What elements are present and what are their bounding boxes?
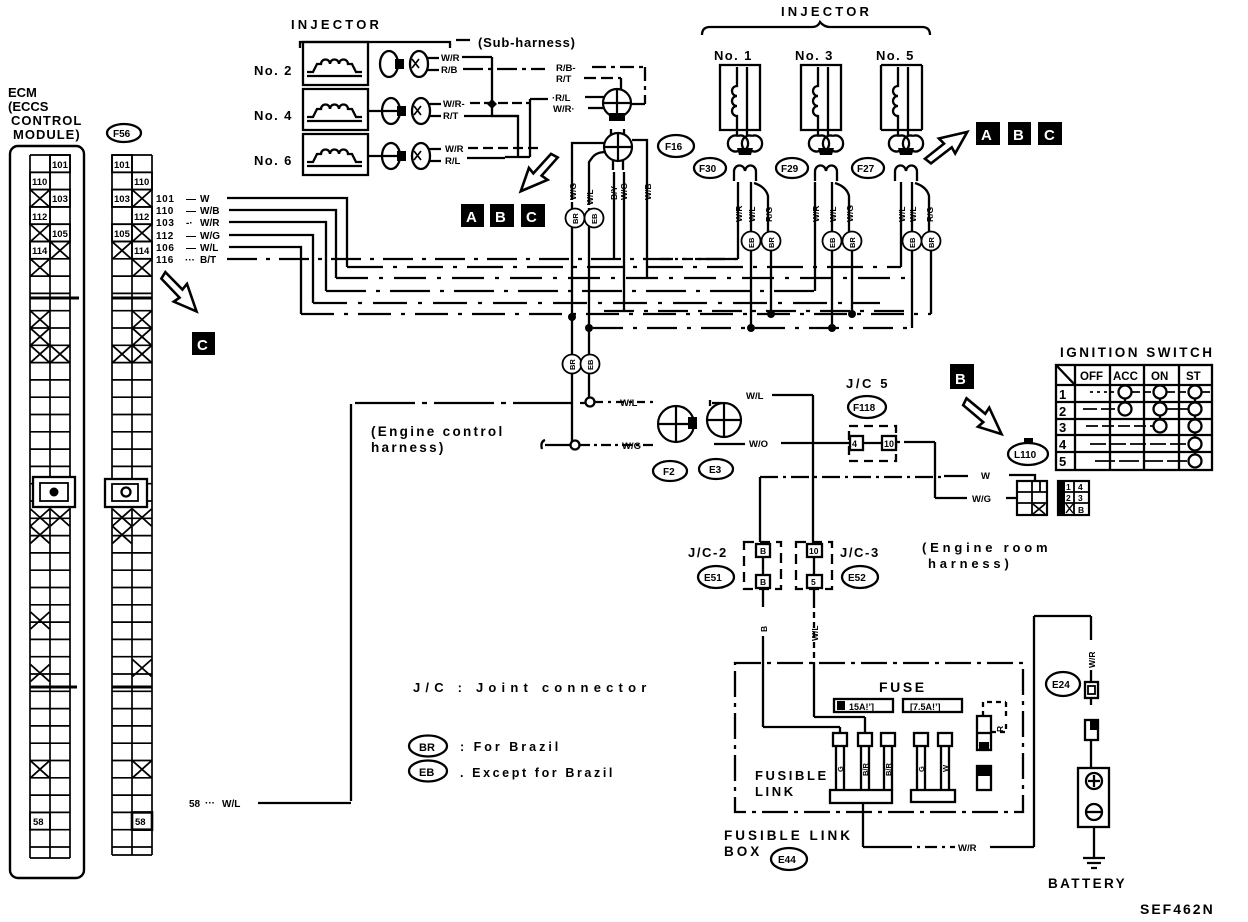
harness dash line horizontal W/L (355, 402, 586, 404)
wire from J/C5 to W grid (896, 442, 1017, 498)
wire W/R from bus bar to battery (863, 803, 900, 847)
row numbers (1059, 387, 1067, 469)
No.1 BR EB circles (742, 232, 761, 251)
wires out of circle 2 (572, 140, 647, 278)
svg-text:-·: -· (186, 218, 193, 229)
fusible link 3 (881, 733, 895, 790)
svg-text:E3: E3 (709, 465, 722, 476)
harness dash line vertical (350, 404, 352, 801)
svg-text:G: G (917, 766, 926, 772)
svg-text:SEF462N: SEF462N (1140, 901, 1215, 917)
wire 58 W/L bottom (258, 802, 351, 804)
svg-text:W/R-: W/R- (443, 99, 465, 110)
svg-text:BOX: BOX (724, 844, 762, 859)
svg-text:116: 116 (156, 255, 174, 266)
injector No.2 (254, 42, 368, 85)
svg-text:110: 110 (134, 177, 149, 188)
svg-text:E24: E24 (1052, 680, 1070, 691)
ECM connector strip 1 outer case (10, 146, 84, 878)
svg-text:W: W (981, 471, 990, 482)
black boxes A B C (mid) (461, 204, 545, 227)
black box B (950, 364, 974, 389)
bracket under left injector label (300, 40, 470, 48)
svg-text:W/L: W/L (828, 206, 838, 222)
svg-text:4: 4 (1078, 482, 1083, 492)
svg-text:No. 3: No. 3 (795, 48, 834, 63)
svg-text:101: 101 (156, 194, 175, 205)
svg-text:BATTERY: BATTERY (1048, 876, 1127, 891)
oval F118 (848, 396, 886, 418)
svg-text:B: B (760, 546, 766, 556)
svg-text:J/C 5: J/C 5 (846, 376, 890, 391)
svg-text:[7.5A!’]: [7.5A!’] (910, 702, 941, 712)
svg-text:112: 112 (134, 212, 149, 223)
svg-text:F118: F118 (853, 403, 876, 414)
No.3 wire labels (811, 205, 855, 222)
svg-text:R/B-: R/B- (556, 63, 576, 74)
svg-text:W/O: W/O (749, 439, 768, 450)
svg-text:W/L: W/L (897, 206, 907, 222)
fusible link 1 (833, 733, 847, 790)
svg-text:103: 103 (156, 218, 175, 229)
svg-text:E51: E51 (704, 573, 722, 584)
brace over injectors (702, 22, 930, 35)
connector F29 oval (776, 158, 808, 178)
svg-text:101: 101 (52, 160, 69, 171)
svg-text:J/C-2: J/C-2 (688, 545, 728, 560)
connector F27 oval (852, 158, 884, 178)
wire W (944, 475, 1035, 481)
wire W/O to J/C 5 (714, 443, 850, 444)
svg-text:B: B (495, 209, 506, 226)
svg-text:R/G: R/G (925, 207, 935, 223)
svg-text:W/L: W/L (200, 243, 218, 254)
svg-text:W/R: W/R (200, 218, 220, 229)
wire W/R to connector (588, 107, 604, 109)
svg-text:2: 2 (1066, 493, 1071, 503)
svg-text:103: 103 (52, 194, 68, 205)
No.3 connector bulbs (809, 136, 843, 182)
oval F2 (653, 461, 687, 481)
oval L110 (1008, 438, 1048, 465)
legend EB oval (409, 761, 447, 782)
fusible link 4 (914, 733, 928, 790)
wire W/L to E3 (595, 401, 654, 403)
oval E24 (1046, 672, 1080, 696)
battery connector 1 (1085, 670, 1098, 705)
No.5 BR EB circles (903, 232, 922, 251)
svg-text:—: — (186, 206, 196, 217)
injector No.4 connector pair (368, 98, 441, 124)
wire 106/W-L step (229, 247, 301, 314)
connector F16 oval (658, 135, 694, 157)
svg-text:114: 114 (32, 246, 48, 257)
bus W (347, 266, 901, 268)
svg-text:B: B (1078, 505, 1084, 515)
sub-harness connector circle 2 (604, 129, 632, 161)
svg-text:W/L: W/L (908, 206, 918, 222)
svg-text:5: 5 (1059, 454, 1066, 469)
fuse 7.5A (903, 699, 962, 712)
No.4 wire labels W/R R/T (443, 99, 465, 122)
svg-text:4: 4 (1059, 437, 1067, 452)
BR EB circles (sub-harness) (566, 209, 604, 228)
svg-text:W/R·: W/R· (553, 104, 575, 115)
oval E52 (842, 566, 878, 588)
svg-text:106: 106 (156, 243, 175, 254)
svg-text:FUSIBLE LINK: FUSIBLE LINK (724, 828, 853, 843)
wire R/T (584, 78, 621, 90)
label 58 W/L (189, 798, 240, 810)
No.1 wires to bus with dots (751, 251, 771, 328)
svg-text:R/T: R/T (443, 111, 459, 122)
svg-text:W/L: W/L (746, 391, 764, 402)
fusible link 2 (858, 733, 872, 790)
injector No.6 connector pair (368, 143, 441, 169)
svg-text:R/T: R/T (556, 74, 572, 85)
wire W/L from E3 to J/C-3 drop (772, 395, 813, 542)
battery symbol (1078, 768, 1109, 858)
svg-text:E52: E52 (848, 573, 866, 584)
svg-text:G: G (836, 766, 845, 772)
svg-text:EB: EB (908, 237, 917, 248)
bus W/B (336, 277, 905, 279)
svg-text:105: 105 (52, 229, 69, 240)
ignition harness connector grid 2 (1058, 481, 1089, 515)
svg-text:W/R: W/R (445, 144, 464, 155)
BR EB circles (mid) (563, 355, 582, 374)
injector No.2 connector pair (380, 51, 439, 77)
svg-text:F56: F56 (113, 129, 131, 140)
svg-text:110: 110 (32, 177, 47, 188)
svg-text:W: W (200, 194, 210, 205)
svg-text:B/T: B/T (200, 255, 216, 266)
bus W/R (326, 290, 815, 292)
injector No.1 (714, 48, 760, 135)
J/C-3 joint connector box (796, 542, 832, 589)
svg-text:R/L: R/L (445, 156, 461, 167)
ground symbol (1083, 858, 1105, 868)
svg-text:BR: BR (848, 237, 857, 248)
svg-text:2: 2 (1059, 404, 1066, 419)
svg-text:No. 6: No. 6 (254, 153, 293, 168)
connector F30 oval (694, 158, 726, 178)
oval E51 (698, 566, 734, 588)
pin 101 label W (156, 194, 220, 266)
fuse box boundary (735, 663, 1023, 812)
svg-text:W/G: W/G (568, 183, 578, 200)
svg-text:harness): harness) (371, 440, 446, 455)
svg-text:112: 112 (156, 231, 174, 242)
svg-text:W: W (941, 764, 950, 772)
legend BR oval (409, 736, 447, 757)
svg-text:No. 5: No. 5 (876, 48, 915, 63)
svg-text:—: — (186, 194, 196, 205)
connector F2 round (658, 406, 697, 442)
svg-text:114: 114 (134, 246, 150, 257)
svg-text:No. 1: No. 1 (714, 48, 753, 63)
bus mid (604, 310, 907, 312)
svg-text:110: 110 (156, 206, 174, 217)
No.1 connector bulbs (728, 136, 762, 182)
wire W/R No.2 down (462, 57, 548, 157)
svg-text:58: 58 (189, 799, 201, 810)
svg-text:LINK: LINK (755, 784, 796, 799)
svg-text:···: ··· (205, 798, 215, 809)
ignition harness connector grid 1 (1017, 481, 1047, 515)
wire R/L to connector (585, 96, 604, 98)
svg-text:L110: L110 (1014, 450, 1037, 461)
FUSIBLE LINK BOX label (724, 828, 853, 859)
svg-text:R/B: R/B (441, 65, 458, 76)
svg-text:W/G: W/G (845, 205, 855, 222)
svg-text:W/L: W/L (585, 189, 595, 205)
oval E3 (699, 459, 733, 479)
svg-text:F27: F27 (857, 164, 875, 175)
svg-text:B: B (1013, 127, 1024, 144)
svg-text:(Engine control: (Engine control (371, 424, 505, 439)
arrow from B to L110 (959, 391, 1008, 443)
contact circles ON (1154, 386, 1167, 433)
No.2 wire labels W/R R/B (441, 53, 460, 76)
svg-text:BR: BR (568, 359, 577, 370)
svg-text:103: 103 (114, 194, 130, 205)
bus W/G (313, 302, 880, 304)
arrow to ABC (top right) (920, 125, 974, 168)
wire W/R No.6 dash (468, 147, 540, 149)
wire 101/W step (227, 198, 347, 267)
ECM connector strip 1 grid (30, 155, 70, 858)
FUSIBLE LINK label (755, 768, 829, 799)
svg-text:105: 105 (114, 229, 131, 240)
wire R/B to connector right side (592, 67, 645, 104)
svg-text:EB: EB (828, 237, 837, 248)
strip 1 section divider (30, 297, 79, 300)
svg-text:EB: EB (747, 237, 756, 248)
wire R/T No.4 (464, 115, 518, 117)
svg-text:101: 101 (114, 160, 131, 171)
svg-text:15A!’]: 15A!’] (849, 702, 874, 712)
svg-text:: For Brazil: : For Brazil (460, 740, 561, 754)
No.1 wire labels (734, 205, 774, 222)
svg-text:3: 3 (1059, 420, 1066, 435)
svg-text:J/C-3: J/C-3 (840, 545, 880, 560)
svg-text:C: C (1044, 127, 1055, 144)
component 2 (977, 766, 991, 790)
No.3 harness wires (815, 182, 849, 291)
svg-text:F30: F30 (699, 164, 717, 175)
connector E3 round (707, 400, 741, 437)
svg-text:F16: F16 (665, 142, 683, 153)
No.1 harness wires (711, 182, 768, 259)
feed wire to link 2 (814, 663, 865, 733)
node W/L (586, 398, 595, 407)
svg-text:W/R: W/R (811, 205, 821, 222)
svg-text:1: 1 (1066, 482, 1071, 492)
J/C-2 joint connector box (744, 542, 781, 589)
ECM (ECCS CONTROL MODULE) label (8, 85, 82, 142)
svg-text:W/L: W/L (747, 206, 757, 222)
J/C-3 wire down with W/L label (813, 557, 815, 608)
svg-text:CONTROL: CONTROL (11, 113, 82, 128)
svg-text:B: B (760, 577, 766, 587)
svg-text:ACC: ACC (1113, 371, 1138, 383)
W/L vertical with junction dot (588, 354, 590, 397)
svg-text:(Sub-harness): (Sub-harness) (478, 35, 576, 50)
svg-text:112: 112 (32, 212, 47, 223)
oval E44 (771, 848, 807, 870)
ECM connector strip 2 grid (112, 155, 152, 855)
wire W to J/C-2 drop (760, 476, 944, 478)
No.3 wires to bus with dots (832, 251, 852, 328)
svg-text:C: C (526, 209, 537, 226)
black box C (left) (192, 332, 215, 355)
fuse 15A (834, 699, 893, 712)
label (Engine control harness) (371, 424, 505, 455)
svg-text:B: B (759, 626, 769, 632)
svg-text:EB: EB (586, 359, 595, 370)
label (Engine room harness) (922, 540, 1051, 571)
svg-text:1: 1 (1059, 387, 1066, 402)
W/G vertical with junction dot (572, 317, 575, 445)
svg-text:BR: BR (767, 237, 776, 248)
svg-text:3: 3 (1078, 493, 1083, 503)
svg-text:No. 2: No. 2 (254, 63, 293, 78)
svg-text:R/G: R/G (764, 207, 774, 223)
strip 1 lock box (33, 477, 75, 507)
black boxes A B C (top right) (976, 122, 1062, 145)
strip 2 section divider (112, 297, 152, 300)
wire 103/W-R step (229, 222, 326, 291)
svg-text:—: — (186, 231, 196, 242)
bus W/L (301, 313, 931, 315)
strip 1 pin numbers (30, 155, 70, 830)
svg-text:F29: F29 (781, 164, 799, 175)
svg-text:—: — (186, 243, 196, 254)
wires continue below labels (572, 172, 624, 355)
svg-text:J/C : Joint connector: J/C : Joint connector (413, 680, 652, 695)
svg-text:ST: ST (1186, 371, 1201, 383)
svg-text:B/R: B/R (861, 763, 870, 777)
J/C-2 wire down with B label (762, 557, 764, 607)
svg-text:W/R: W/R (441, 53, 460, 64)
svg-text:W/R: W/R (734, 205, 744, 222)
svg-text:harness): harness) (928, 556, 1013, 571)
svg-text:R: R (995, 726, 1005, 732)
fusible link bus bar 1 (830, 790, 892, 803)
relay component R (977, 702, 1006, 750)
svg-text:E44: E44 (778, 855, 796, 866)
svg-text:F2: F2 (663, 467, 675, 478)
svg-text:BR: BR (571, 213, 580, 224)
contact circles ACC (1119, 386, 1132, 416)
svg-text:B/R: B/R (884, 763, 893, 777)
strip 2 pin numbers (112, 155, 152, 830)
svg-text:EB: EB (419, 767, 434, 779)
svg-text:·R/L: ·R/L (552, 93, 571, 104)
No.5 wires to bus (912, 251, 931, 328)
connector F56 oval (107, 124, 141, 142)
feed wire to link 1 (763, 663, 840, 733)
strip 2 divider 2 (112, 686, 152, 689)
wire hook W/G left (541, 440, 571, 449)
wire W/G to F2 (580, 444, 656, 446)
injector No.4 (254, 89, 368, 130)
svg-text:W/R: W/R (1087, 651, 1097, 668)
svg-text:W/R: W/R (958, 843, 977, 854)
svg-text:W/L: W/L (620, 398, 638, 409)
svg-text:C: C (197, 337, 208, 354)
strip 2 X cells (113, 190, 152, 778)
svg-text:MODULE): MODULE) (13, 127, 81, 142)
svg-text:BR: BR (419, 742, 435, 754)
fusible link 5 (938, 733, 952, 790)
svg-text:W/L: W/L (222, 799, 240, 810)
svg-text:BR: BR (927, 237, 936, 248)
svg-text:5: 5 (811, 577, 816, 587)
svg-text:W/G: W/G (200, 231, 220, 242)
battery connector 2 (1085, 720, 1098, 768)
sub-harness connector circle 1 (603, 89, 631, 121)
junction dot (487, 99, 497, 109)
svg-text:W/B: W/B (643, 183, 653, 200)
svg-text:4: 4 (852, 439, 857, 449)
svg-text:W/B: W/B (200, 206, 219, 217)
svg-text:58: 58 (33, 817, 44, 828)
label R/B- (552, 63, 576, 115)
svg-text:ON: ON (1151, 371, 1168, 383)
svg-text:···: ··· (185, 255, 195, 266)
svg-text:FUSIBLE: FUSIBLE (755, 768, 829, 783)
svg-text:(ECCS: (ECCS (8, 99, 49, 114)
J/C 5 joint connector box (849, 426, 896, 461)
table frame (1056, 365, 1212, 470)
svg-text:10: 10 (884, 439, 894, 449)
contact circles ST (1189, 386, 1202, 468)
svg-text:B: B (955, 371, 966, 388)
arrow to ABC (sub-harness) (513, 150, 565, 198)
No.3 BR EB circles (823, 232, 842, 251)
svg-text:W/G: W/G (972, 494, 991, 505)
strip 1 X cells (31, 190, 70, 778)
svg-text:W/G: W/G (622, 441, 641, 452)
bus lower (593, 327, 913, 329)
svg-text:INJECTOR: INJECTOR (781, 4, 872, 19)
injector No.3 (795, 48, 841, 135)
No.6 wire labels W/R R/L (445, 144, 464, 167)
No.5 harness wires (901, 182, 929, 267)
wire 112/W-G step (229, 235, 313, 303)
svg-text:A: A (466, 209, 477, 226)
svg-text:. Except for Brazil: . Except for Brazil (460, 766, 615, 780)
node W/G (571, 441, 580, 450)
column headers (1080, 371, 1201, 383)
injector No.6 (254, 134, 368, 175)
No.5 connector bulbs (889, 136, 923, 182)
svg-text:IGNITION SWITCH: IGNITION SWITCH (1060, 345, 1215, 360)
svg-text:FUSE: FUSE (879, 679, 927, 695)
svg-text:(Engine room: (Engine room (922, 540, 1051, 555)
row contact lines (1083, 392, 1210, 461)
svg-text:ECM: ECM (8, 85, 37, 100)
wire R/B No.2 right (463, 68, 545, 70)
svg-text:INJECTOR: INJECTOR (291, 17, 382, 32)
wire 110/W-B step (229, 210, 336, 278)
svg-text:No. 4: No. 4 (254, 108, 293, 123)
No.5 wire labels (897, 206, 935, 222)
strip 1 divider 2 (30, 686, 77, 689)
svg-text:10: 10 (809, 546, 819, 556)
